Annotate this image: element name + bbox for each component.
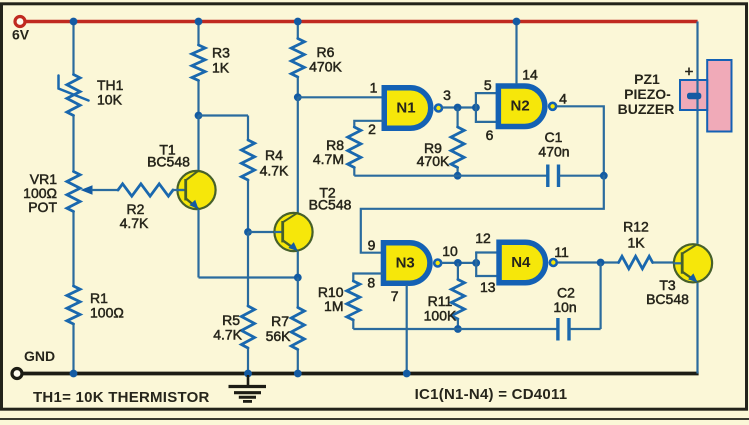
svg-text:4: 4 <box>559 91 567 107</box>
wire node A to R4 <box>199 114 249 116</box>
resistor R11 <box>451 280 464 320</box>
wire rail to R3 <box>197 22 199 46</box>
node rail/TH1 junction <box>70 18 78 26</box>
svg-text:100Ω: 100Ω <box>90 305 124 321</box>
wire +6V rail (red) <box>25 20 698 23</box>
node N4 input tap <box>472 259 480 267</box>
svg-text:9: 9 <box>368 237 376 253</box>
svg-text:+: + <box>685 64 694 81</box>
svg-text:6: 6 <box>486 127 494 143</box>
node R4/T2 base junction <box>244 228 252 236</box>
piezo buzzer PZ1 body <box>707 60 731 132</box>
potentiometer VR1 <box>67 172 80 212</box>
svg-text:BUZZER: BUZZER <box>618 101 675 117</box>
svg-text:R3: R3 <box>212 45 230 61</box>
node R1/ground junction <box>70 370 78 378</box>
resistor R2 <box>118 184 173 196</box>
svg-text:14: 14 <box>522 67 538 83</box>
node rail/R6 junction <box>294 18 302 26</box>
wire T1 emitter down <box>197 209 199 277</box>
resistor R1 <box>67 286 80 324</box>
svg-text:TH1= 10K THERMISTOR: TH1= 10K THERMISTOR <box>33 389 210 406</box>
svg-text:R7: R7 <box>271 313 289 329</box>
wire node B down to T2 collector <box>297 97 299 213</box>
wire junction to R7 <box>297 278 299 308</box>
svg-text:8: 8 <box>367 275 375 291</box>
node C1/N2 output junction <box>600 172 608 180</box>
node B R6/T2 collector/N1 input junction <box>294 93 302 101</box>
svg-text:1M: 1M <box>324 298 343 314</box>
svg-text:470K: 470K <box>417 153 450 169</box>
svg-text:6V: 6V <box>12 27 30 43</box>
svg-text:IC1(N1-N4) = CD4011: IC1(N1-N4) = CD4011 <box>415 386 568 403</box>
resistor R5 <box>241 306 254 348</box>
wire N3 pin 7 to ground <box>406 285 408 374</box>
VR1 wiper arrow <box>81 185 93 195</box>
wire T3 collector to buzzer <box>696 110 698 244</box>
wire N4 output pin 11 <box>558 261 619 263</box>
node rail/pin14 junction <box>513 18 521 26</box>
svg-text:5: 5 <box>484 77 492 93</box>
wire pin 14 to 6V rail <box>515 22 517 85</box>
transistor T2 BC548 <box>274 213 312 251</box>
svg-text:BC548: BC548 <box>147 154 190 170</box>
svg-text:3: 3 <box>443 87 451 103</box>
thermistor TH1 <box>67 75 80 116</box>
node R9/feedback junction <box>454 172 462 180</box>
svg-text:7: 7 <box>391 288 399 304</box>
transistor T3 BC548 <box>674 244 712 282</box>
wire N2 output pin 4 to C1 column <box>557 106 604 175</box>
node R7/ground junction <box>294 370 302 378</box>
capacitor C1 <box>546 165 549 188</box>
svg-text:BC548: BC548 <box>646 291 689 307</box>
wire N1 output pin 3 <box>442 106 476 108</box>
capacitor C2 <box>556 318 559 341</box>
wire R11 from output <box>457 263 459 280</box>
op NAND gate N4 (IC1d) <box>499 242 546 283</box>
resistor R3 <box>192 45 205 81</box>
wire R11 bottom to loop rail <box>457 319 459 329</box>
node rail/R3 junction <box>195 18 203 26</box>
wire T1 emitter to T2 emitter rail <box>199 276 298 278</box>
wire VR1 to R1 <box>72 212 74 287</box>
svg-text:N3: N3 <box>396 254 415 271</box>
wire feedback rail row1 (R8-R9-C1) <box>354 175 548 177</box>
6V supply terminal <box>15 17 25 27</box>
resistor R7 <box>291 308 304 350</box>
wire R7 to ground <box>297 350 299 374</box>
wire through piezo element <box>696 80 698 110</box>
svg-text:4.7K: 4.7K <box>120 215 149 231</box>
resistor R6 <box>291 39 304 78</box>
wire R12 to T3 base <box>653 261 681 263</box>
wire R2 to T1 base <box>172 189 184 191</box>
node N2 input tap <box>472 104 480 112</box>
wire R3 to node A <box>197 81 199 116</box>
svg-text:N4: N4 <box>511 254 531 271</box>
wire R10 to loop rail <box>352 320 354 329</box>
wire N3 pin 8 to R10 <box>353 274 382 282</box>
node output11/C2 junction <box>597 259 605 267</box>
svg-text:10K: 10K <box>97 92 123 108</box>
node R11 top tap <box>454 259 462 267</box>
op NAND gate N3 (IC1c) <box>383 243 430 284</box>
svg-text:4.7M: 4.7M <box>313 151 344 167</box>
node A R3/R4/T1 collector junction <box>195 112 203 120</box>
piezo element square <box>680 80 707 110</box>
resistor R9 <box>451 127 464 168</box>
svg-text:GND: GND <box>24 348 55 364</box>
svg-text:10: 10 <box>442 243 458 259</box>
wire R5 to ground <box>247 348 249 374</box>
wire rail to R6 <box>297 22 299 39</box>
wire N2 input bracket pins 5-6 <box>476 92 496 94</box>
wire N3 output pin 10 <box>441 262 476 264</box>
svg-text:1K: 1K <box>212 60 230 76</box>
resistor R12 <box>619 256 653 268</box>
svg-text:2: 2 <box>368 121 376 137</box>
svg-text:BC548: BC548 <box>309 197 352 213</box>
svg-text:470n: 470n <box>538 144 569 160</box>
wire node B to N1 pin 1 <box>298 96 383 98</box>
wire node A down to T1 collector <box>197 116 199 172</box>
wire TH1 to VR1 <box>72 116 74 172</box>
svg-text:N2: N2 <box>511 98 530 115</box>
wire T2 emitter down <box>297 251 299 277</box>
piezo minus electrode <box>687 93 701 99</box>
node pin7/ground junction <box>403 370 411 378</box>
node R11/loop junction <box>454 325 462 333</box>
wire R9 bottom to feedback rail <box>457 168 459 176</box>
svg-text:11: 11 <box>554 244 569 260</box>
svg-text:1K: 1K <box>627 235 645 251</box>
svg-text:470K: 470K <box>309 59 342 75</box>
svg-text:PZ1: PZ1 <box>634 71 660 87</box>
svg-text:12: 12 <box>475 230 491 246</box>
resistor R10 <box>347 281 360 320</box>
node R5/ground junction <box>244 370 252 378</box>
wire T3 emitter to ground <box>696 283 698 374</box>
resistor R8 <box>348 127 361 168</box>
svg-text:1: 1 <box>370 80 378 96</box>
svg-text:56K: 56K <box>266 328 292 344</box>
svg-text:R12: R12 <box>623 219 649 235</box>
node emitter rail/R7 junction <box>294 274 302 282</box>
transistor T1 BC548 <box>177 171 215 209</box>
op NAND gate N2 (IC1b) <box>498 86 544 127</box>
resistor R4 <box>247 116 249 141</box>
wire R4 to T2 base node <box>247 180 249 232</box>
svg-text:PIEZO-: PIEZO- <box>624 86 671 102</box>
svg-text:10n: 10n <box>553 299 576 315</box>
wire R6 to node B <box>297 77 299 97</box>
svg-text:4.7K: 4.7K <box>260 163 289 179</box>
wire loop rail row3 (R10-R11-C2) <box>353 328 558 330</box>
wire base node down to R5 <box>247 232 249 306</box>
wire R1 to ground rail <box>72 324 74 374</box>
wire C1 right plate to junction <box>559 175 604 177</box>
svg-text:100K: 100K <box>424 308 457 324</box>
svg-text:N1: N1 <box>396 99 415 116</box>
op NAND gate N1 (IC1a) <box>384 88 431 129</box>
GND terminal <box>12 369 22 379</box>
wire feedback to N3 pin 9 <box>361 176 604 253</box>
svg-text:POT: POT <box>28 199 57 215</box>
node R9 top tap <box>454 104 462 112</box>
wire base node to T2 <box>248 231 282 233</box>
wire 6V rail down to buzzer <box>696 22 698 82</box>
ground symbol <box>247 375 250 385</box>
svg-text:13: 13 <box>480 279 496 295</box>
wire N1 pin 2 to R8 <box>354 121 383 127</box>
wire R8 to feedback rail <box>353 168 355 176</box>
wire junction down to C2 <box>599 263 601 330</box>
svg-text:R4: R4 <box>265 147 283 163</box>
wire 6V rail to TH1 <box>72 22 74 75</box>
wire N4 input bracket pins 12-13 <box>476 251 496 253</box>
svg-text:4.7K: 4.7K <box>213 327 242 343</box>
wire C2 right plate to junction column <box>569 328 601 330</box>
wire R9 from output <box>457 108 459 128</box>
wire ground rail <box>22 372 699 376</box>
